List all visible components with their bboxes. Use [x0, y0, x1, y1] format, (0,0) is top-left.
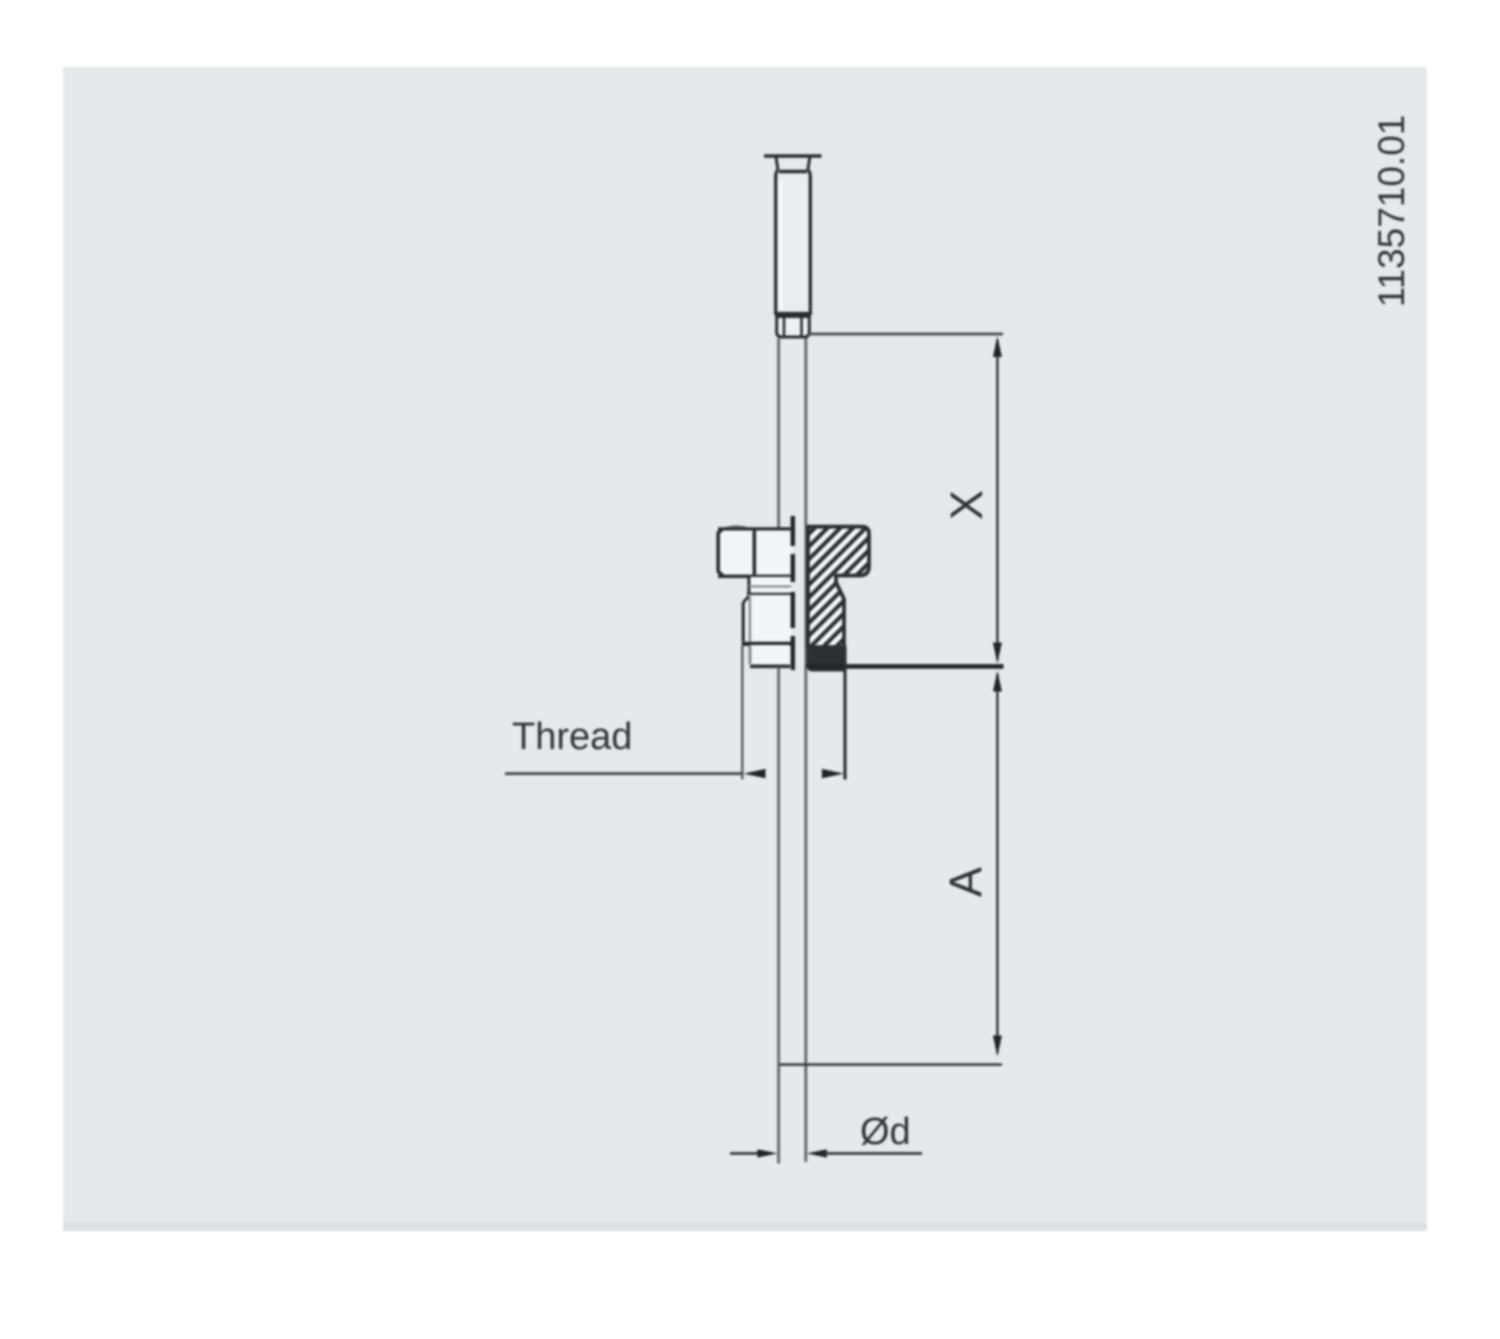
probe collar inner right line [800, 318, 803, 336]
thread end collar fill [750, 645, 790, 665]
thread end collar bottom line [750, 664, 790, 668]
gray drawing panel [63, 67, 1427, 1231]
probe cap top line [764, 154, 822, 157]
panel bottom shade [63, 1222, 1427, 1231]
hex nut fill [718, 529, 792, 576]
threaded body left edge [742, 603, 745, 642]
Od left arrow [757, 1149, 777, 1157]
X dimension line [996, 340, 998, 660]
thread left arrow [743, 769, 765, 778]
probe cap neck left slant [776, 157, 778, 170]
hex nut left edge [718, 529, 723, 576]
thread right extension line [843, 647, 846, 780]
thread relief fill [749, 577, 792, 594]
A bottom arrow [993, 1036, 1002, 1057]
capillary tube upper left edge [777, 339, 780, 529]
Od right arrow [807, 1149, 827, 1157]
probe collar inner left line [783, 318, 786, 336]
thread right arrow [822, 769, 844, 778]
probe collar [777, 317, 810, 338]
tube right edge through section [805, 524, 808, 667]
svg-text:1135710.01: 1135710.01 [1371, 115, 1412, 308]
section gland hatched profile [808, 527, 869, 647]
A dimension line [996, 674, 998, 1053]
threaded body chamfer [743, 596, 749, 603]
probe body cylinder [776, 170, 811, 314]
ferrule solid section [808, 647, 846, 671]
hex nut facet line [752, 529, 756, 576]
thread top line [747, 593, 792, 596]
threaded body inner line [749, 596, 751, 642]
X top extension line [808, 333, 1003, 336]
X top arrow [993, 336, 1002, 357]
capillary tube lower left edge [777, 667, 780, 1164]
threaded body fill [743, 595, 791, 643]
thread leader line [505, 772, 742, 775]
svg-text:Thread: Thread [512, 716, 632, 758]
capillary tube upper right edge [804, 339, 807, 527]
svg-text:X: X [941, 490, 992, 520]
probe cap crimp band [779, 170, 807, 174]
capillary tube lower right edge [804, 667, 807, 1162]
thread relief left edge [747, 577, 750, 594]
datum heavy line [806, 664, 1004, 669]
probe body inner highlight [779, 180, 783, 310]
Od dimension left line [730, 1152, 760, 1155]
thread left extension line [741, 646, 743, 780]
probe cap neck right slant [808, 157, 810, 170]
threaded body bottom heavy line [742, 642, 793, 646]
A top arrow [993, 671, 1002, 692]
svg-text:Ød: Ød [860, 1111, 911, 1153]
A bottom extension line [779, 1063, 1002, 1066]
svg-text:A: A [940, 867, 991, 897]
X bottom arrow [993, 643, 1002, 664]
hex nut chamfer arc [726, 526, 747, 528]
thread relief groove line [749, 585, 791, 587]
probe body bottom line [776, 313, 811, 316]
hex nut top edge [718, 527, 791, 530]
thread end collar left edge [749, 646, 752, 664]
hex nut bottom edge [718, 575, 792, 578]
Od dimension right line [824, 1152, 922, 1155]
section cut centerline [791, 516, 795, 670]
